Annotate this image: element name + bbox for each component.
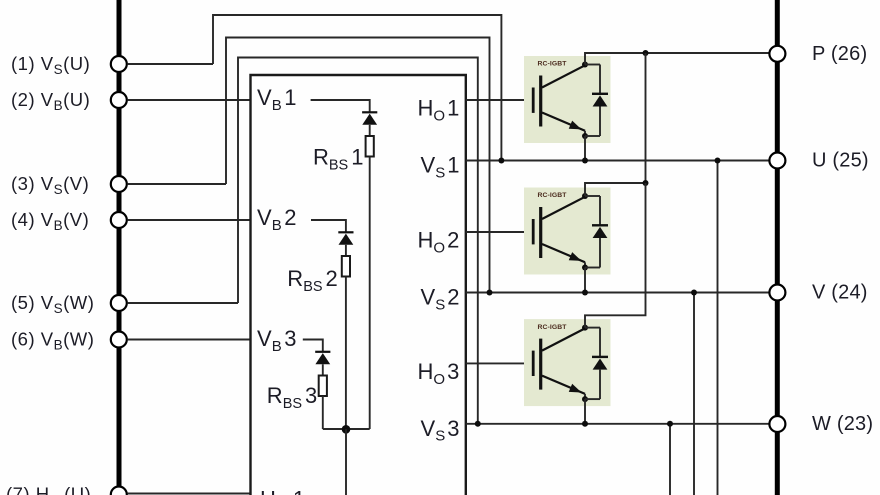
- pin (4) VB(V) terminal: [111, 212, 127, 228]
- IGBT Q2 collector node: [582, 193, 588, 199]
- svg-text:(1) VS(U): (1) VS(U): [11, 53, 90, 77]
- pin P (26) label: [812, 43, 867, 65]
- pin U (25) terminal: [769, 153, 785, 169]
- pin (7) HIN(U) terminal: [111, 487, 127, 495]
- pin V (24) label: [812, 282, 868, 304]
- wire node VS1 / phase U: [466, 160, 769, 162]
- wire RBS2 down to common node: [345, 277, 347, 430]
- IGBT Q2 body bar: [539, 207, 542, 258]
- right bus wire (power pin rail): [775, 0, 780, 495]
- junction VS1 loop: [498, 158, 504, 164]
- junction VS2 loop: [487, 290, 493, 296]
- resistor RBS1: [366, 136, 374, 157]
- wire Q1 emitter to phase node: [584, 136, 586, 161]
- resistor RBS3: [319, 376, 327, 397]
- freewheel diode DF3: [585, 328, 608, 400]
- VS3 pin label: [421, 416, 460, 445]
- svg-text:P (26): P (26): [812, 43, 867, 65]
- IGBT Q3 collector node: [582, 325, 588, 331]
- junction P rail feed: [643, 50, 649, 56]
- HIN1 pin label (cut off): [260, 487, 305, 495]
- VB2 pin label: [257, 205, 296, 234]
- freewheel diode DF1: [585, 65, 608, 137]
- svg-text:(5) VS(W): (5) VS(W): [11, 292, 94, 316]
- junction VS3 loop: [475, 421, 481, 427]
- IGBT Q3 emitter arrow: [569, 384, 582, 393]
- IGBT Q2 emitter node: [582, 265, 588, 271]
- IGBT Q2 emitter arrow: [569, 252, 582, 261]
- pin (3) VS(V) terminal: [111, 176, 127, 192]
- resistor RBS2: [342, 256, 350, 277]
- IGBT Q2 gate bar: [532, 219, 535, 244]
- svg-text:RC-IGBT: RC-IGBT: [538, 324, 568, 331]
- pin V (24) terminal: [769, 285, 785, 301]
- IGBT Q2 RC-IGBT label: [538, 192, 568, 199]
- wire common node down to VCC (cut off): [345, 429, 347, 495]
- wire phase U down to low side (cut off): [717, 161, 719, 495]
- pin U (25) label: [812, 150, 869, 172]
- wire P feed down to Q3 collector: [585, 183, 646, 328]
- resistor RBS3 value label: [267, 383, 317, 412]
- IGBT Q3 RC-IGBT label: [538, 324, 568, 331]
- IGBT Q3 body bar: [539, 339, 542, 390]
- IGBT Q3 emitter node: [582, 396, 588, 402]
- bootstrap diode D2: [338, 232, 353, 256]
- svg-text:U (25): U (25): [812, 150, 869, 172]
- junction Q1 emitter on phase wire: [582, 158, 588, 164]
- resistor RBS2 value label: [287, 266, 337, 295]
- junction Q3 emitter on phase wire: [582, 421, 588, 427]
- IGBT Q3 emitter stroke: [542, 376, 585, 400]
- HO3 pin label: [418, 359, 460, 388]
- wire pin6 VB(W) to driver box: [127, 339, 250, 341]
- junction phase U down line: [715, 158, 721, 164]
- pin (1) VS(U) label: [11, 53, 90, 77]
- pin (7) HIN(U) label: [6, 483, 91, 495]
- IGBT Q2 emitter stroke: [542, 244, 585, 268]
- pin (5) VS(W) label: [11, 292, 94, 316]
- wire pin7 HIN(U) to driver box: [127, 493, 250, 495]
- svg-text:RC-IGBT: RC-IGBT: [538, 61, 568, 68]
- VS2 pin label: [421, 285, 460, 314]
- wire VB2 to bootstrap diode D2: [311, 220, 346, 233]
- pin (2) VB(U) label: [11, 89, 90, 113]
- wire P rail from Q1 collector to pin P: [585, 53, 769, 65]
- IGBT Q1 RC-IGBT label: [538, 61, 568, 68]
- wire pin5 VS(W) to inner loop: [127, 302, 238, 304]
- pin W (23) terminal: [769, 416, 785, 432]
- wire VB1 to bootstrap diode D1: [311, 100, 370, 113]
- IGBT Q1 body bar: [539, 76, 542, 127]
- svg-text:(6) VB(W): (6) VB(W): [11, 328, 94, 352]
- IGBT Q1 emitter stroke: [542, 113, 585, 137]
- wire RBS3 down to common node: [322, 396, 324, 429]
- pin (1) VS(U) terminal: [111, 56, 127, 72]
- VS1 pin label: [421, 153, 460, 182]
- svg-text:RC-IGBT: RC-IGBT: [538, 192, 568, 199]
- junction phase V down line: [691, 290, 697, 296]
- IGBT Q3 background: [524, 319, 611, 406]
- wire VS(W) inner loop up-over-down to node VS3: [238, 58, 478, 424]
- bootstrap diode D3: [315, 352, 330, 376]
- VB1 pin label: [257, 85, 296, 114]
- pin (2) VB(U) terminal: [111, 92, 127, 108]
- wire pin3 VS(V) to middle loop: [127, 183, 226, 185]
- wire pin2 VB(U) to driver box: [127, 99, 250, 101]
- gate-driver IC U1 box: [251, 75, 466, 495]
- wire node VS3 / phase W: [466, 423, 769, 425]
- IGBT Q3 gate bar: [532, 351, 535, 376]
- pin (6) VB(W) terminal: [111, 332, 127, 348]
- VB3 pin label: [257, 326, 296, 355]
- resistor RBS1 value label: [313, 145, 363, 174]
- wire pin4 VB(V) to driver box: [127, 219, 250, 221]
- freewheel diode DF2: [585, 196, 608, 268]
- pin P (26) terminal: [769, 46, 785, 62]
- wire phase W down to low side (cut off): [669, 424, 671, 495]
- junction Q2 emitter on phase wire: [582, 290, 588, 296]
- wire Q2 emitter to phase node: [584, 268, 586, 293]
- IGBT Q1 gate bar: [532, 88, 535, 113]
- junction P feed at Q2: [643, 180, 649, 186]
- IGBT Q3 collector stroke: [542, 328, 585, 350]
- pin (4) VB(V) label: [11, 209, 89, 233]
- svg-text:W (23): W (23): [812, 413, 873, 435]
- wire VB3 to bootstrap diode D3: [303, 340, 323, 353]
- HO1 pin label: [418, 96, 460, 125]
- wire VS(V) middle loop up-over-down to node VS2: [226, 38, 490, 293]
- wire RBS1 down to common node: [369, 157, 371, 430]
- IGBT Q1 background: [524, 56, 611, 143]
- wire Q3 emitter to phase node: [584, 399, 586, 424]
- pin (5) VS(W) terminal: [111, 295, 127, 311]
- wire HO3 gate drive to IGBT Q3: [466, 362, 532, 364]
- pin (6) VB(W) label: [11, 328, 94, 352]
- HO2 pin label: [418, 228, 460, 257]
- IGBT Q1 emitter arrow: [569, 121, 582, 130]
- IGBT Q1 collector node: [582, 62, 588, 68]
- bootstrap diode D1: [362, 112, 377, 136]
- pin W (23) label: [812, 413, 873, 435]
- IGBT Q1 emitter node: [582, 133, 588, 139]
- pin (3) VS(V) label: [11, 173, 89, 197]
- left bus wire (input pin rail): [117, 0, 122, 495]
- IGBT Q2 background: [524, 188, 611, 275]
- wire HO2 gate drive to IGBT Q2: [466, 231, 532, 233]
- svg-text:(3) VS(V): (3) VS(V): [11, 173, 89, 197]
- junction common bootstrap node: [342, 425, 351, 434]
- junction phase W down line: [667, 421, 673, 427]
- svg-text:(2) VB(U): (2) VB(U): [11, 89, 90, 113]
- svg-text:(7) HIN(U): (7) HIN(U): [6, 483, 91, 495]
- IGBT Q2 collector stroke: [542, 197, 585, 219]
- wire phase V down to low side (cut off): [693, 293, 695, 495]
- wire P rail down to Q2 collector: [585, 53, 646, 196]
- wire VS(U) outer loop up-over-down to node VS1: [213, 15, 501, 161]
- svg-text:V (24): V (24): [812, 282, 868, 304]
- wire node VS2 / phase V: [466, 292, 769, 294]
- svg-text:(4) VB(V): (4) VB(V): [11, 209, 89, 233]
- wire HO1 gate drive to IGBT Q1: [466, 99, 532, 101]
- wire pin1 VS(U) to outer loop: [127, 63, 213, 65]
- wire bootstrap common rail: [323, 428, 370, 430]
- IGBT Q1 collector stroke: [542, 65, 585, 87]
